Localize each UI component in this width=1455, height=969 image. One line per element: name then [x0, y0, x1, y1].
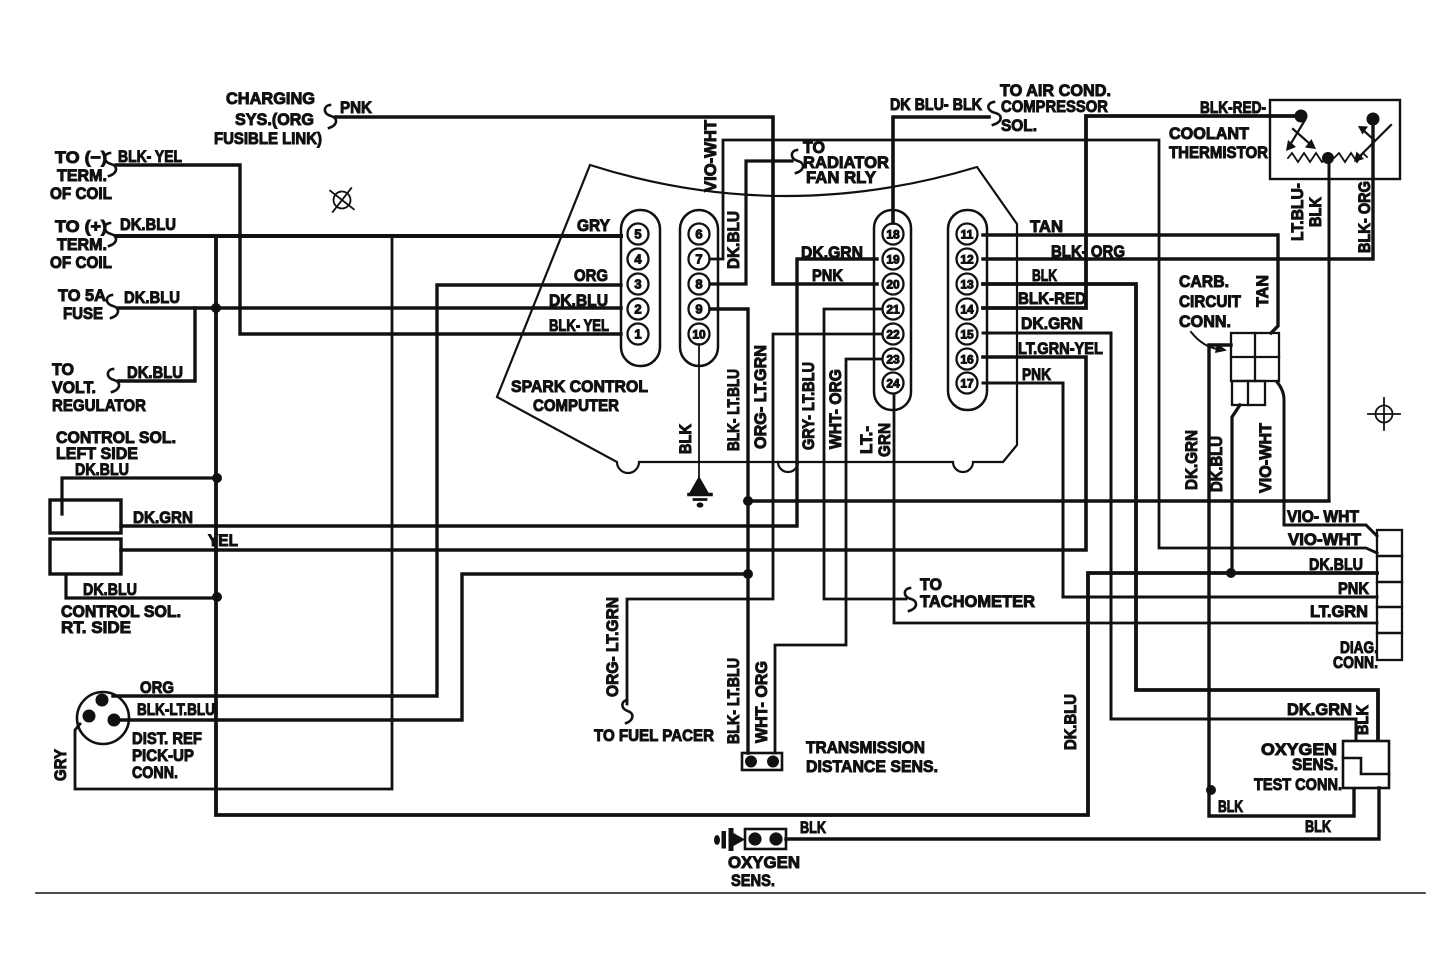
svg-text:GRY: GRY: [51, 748, 70, 781]
svg-text:VIO-WHT: VIO-WHT: [701, 119, 720, 192]
wire: DK.BLU carb conn down to diag DK.BLU wire: [1232, 405, 1240, 571]
svg-text:TERM.: TERM.: [57, 166, 107, 185]
junction: fuse/coil+ DK.BLU vertical tap: [211, 303, 221, 313]
pin 13: [957, 274, 978, 295]
junction: control sol right DK.BLU tap: [212, 592, 222, 602]
pin 21: [883, 299, 904, 320]
svg-text:CONN.: CONN.: [1333, 653, 1378, 672]
svg-text:CONN.: CONN.: [1179, 312, 1231, 331]
pin 12: [957, 249, 978, 270]
wire: BLK oxygen sensor to test conn: [786, 788, 1379, 839]
svg-text:LT.-: LT.-: [857, 426, 876, 454]
component: diagnostic connector cavities: [1377, 530, 1402, 556]
svg-text:21: 21: [886, 303, 900, 317]
svg-text:LT.GRN-YEL: LT.GRN-YEL: [1018, 339, 1103, 358]
svg-text:THERMISTOR: THERMISTOR: [1169, 143, 1268, 162]
wire: BLK-RED pin 14 to coolant thermistor: [983, 116, 1301, 308]
svg-text:DK.BLU: DK.BLU: [83, 580, 137, 599]
node: distributor reference pickup connector: [77, 692, 129, 744]
svg-text:ORG: ORG: [140, 678, 174, 697]
wire: GRY pickup to pin 5: [75, 236, 392, 789]
svg-text:23: 23: [886, 353, 900, 367]
connector shroud pins 11-17: [948, 210, 987, 410]
wire: DK.GRN pin 15 to oxygen sens test conn: [983, 333, 1356, 740]
svg-text:OF COIL: OF COIL: [50, 253, 112, 272]
svg-text:FAN RLY: FAN RLY: [806, 168, 877, 187]
svg-text:PNK: PNK: [340, 98, 373, 117]
wire: YEL control sol to pin 16 LT.GRN-YEL: [121, 357, 1086, 550]
pin 7: [689, 249, 710, 270]
svg-text:12: 12: [960, 253, 974, 267]
svg-text:BLK- ORG: BLK- ORG: [1355, 181, 1374, 253]
svg-text:18: 18: [886, 228, 900, 242]
svg-text:OF COIL: OF COIL: [50, 184, 112, 203]
svg-text:BLK- LT.BLU: BLK- LT.BLU: [724, 658, 743, 744]
wire: LT.GRN pin 24 to diag conn: [894, 394, 1377, 623]
svg-text:10: 10: [692, 328, 706, 342]
wire: VIO-WHT pin 7 to diag conn: [710, 140, 1377, 553]
control solenoid right box: [50, 539, 121, 574]
svg-text:BLK- YEL: BLK- YEL: [118, 147, 182, 166]
connector squiggle: radiator fan relay: [792, 150, 803, 173]
junction: control sol left DK.BLU tap: [212, 473, 222, 483]
pin 1: [628, 324, 649, 345]
svg-text:FUSIBLE LINK): FUSIBLE LINK): [214, 129, 322, 148]
svg-text:TAN: TAN: [1030, 217, 1063, 236]
wire: BLK-ORG pin 12 to coolant thermistor: [983, 122, 1373, 259]
svg-text:CIRCUIT: CIRCUIT: [1179, 292, 1242, 311]
svg-text:3: 3: [634, 277, 641, 292]
registration mark left: [321, 179, 363, 221]
svg-text:TAN: TAN: [1253, 275, 1272, 307]
svg-text:DK.BLU: DK.BLU: [1207, 436, 1226, 492]
wire: DK.BLU pin 8 to radiator fan relay: [710, 161, 792, 284]
svg-text:GRY: GRY: [577, 216, 611, 235]
connector shroud pins 5-1: [621, 210, 660, 366]
svg-text:BLK: BLK: [1218, 797, 1244, 816]
svg-text:BLK- LT.BLU: BLK- LT.BLU: [724, 369, 743, 451]
pin 9: [689, 299, 710, 320]
svg-text:TO: TO: [52, 360, 74, 379]
thermistor right arrow symbol: [1360, 125, 1391, 156]
component: transmission distance sensor connector: [742, 753, 782, 770]
thermistor resistive element zigzag: [1288, 153, 1367, 162]
wire: BLK pin 10 to ground: [698, 344, 700, 478]
svg-text:TO FUEL PACER: TO FUEL PACER: [594, 726, 714, 745]
wire: LT.BLU-BLK thermistor down to BLK-LT.BLU run: [1328, 162, 1331, 501]
svg-text:PNK: PNK: [812, 266, 844, 285]
wire: ORG pickup to pin 3: [113, 285, 621, 696]
svg-text:REGULATOR: REGULATOR: [52, 396, 146, 415]
svg-text:DK.BLU: DK.BLU: [124, 288, 180, 307]
svg-text:SYS.(ORG: SYS.(ORG: [235, 110, 314, 129]
pin 19: [883, 249, 904, 270]
pin 17: [957, 373, 978, 394]
svg-text:TACHOMETER: TACHOMETER: [920, 592, 1035, 611]
svg-text:2: 2: [634, 302, 641, 317]
connector squiggle: fuel pacer: [622, 700, 632, 723]
component: carb circuit connector grid: [1231, 333, 1279, 381]
wire: TAN pin 11 to carb circuit conn: [983, 235, 1278, 333]
svg-text:22: 22: [886, 328, 900, 342]
svg-text:CONN.: CONN.: [132, 763, 178, 782]
wire: BLK-LT.BLU branch to coolant thermistor: [748, 499, 1329, 502]
svg-text:GRY- LT.BLU: GRY- LT.BLU: [799, 362, 818, 450]
wire: DK.BLU coil(+) / GRY run to pin 5: [116, 234, 621, 238]
svg-text:COOLANT: COOLANT: [1169, 124, 1250, 143]
svg-text:BLK-LT.BLU: BLK-LT.BLU: [137, 700, 215, 719]
wire: DK.BLU volt regulator tap: [119, 308, 195, 381]
pin 2: [628, 299, 649, 320]
svg-text:13: 13: [960, 278, 974, 292]
svg-text:SOL.: SOL.: [1001, 116, 1037, 135]
connector squiggle: voltage regulator: [108, 369, 119, 392]
svg-text:DK.GRN: DK.GRN: [1021, 314, 1083, 333]
connector squiggle: charging sys feed: [325, 105, 336, 128]
svg-text:TEST CONN.: TEST CONN.: [1254, 775, 1342, 794]
svg-text:8: 8: [695, 277, 702, 292]
svg-text:5: 5: [634, 227, 641, 242]
svg-text:BLK: BLK: [676, 423, 695, 454]
pin 18: [883, 224, 904, 245]
svg-text:ORG- LT.GRN: ORG- LT.GRN: [603, 597, 622, 697]
wire: DK BLU-BLK pin 18 to air cond compressor: [893, 117, 989, 223]
page fold line: [36, 892, 1425, 894]
svg-text:SPARK CONTROL: SPARK CONTROL: [511, 377, 648, 396]
connector shroud pins 18-24: [874, 210, 911, 410]
svg-text:COMPRESSOR: COMPRESSOR: [1001, 97, 1108, 116]
svg-text:BLK-RED: BLK-RED: [1018, 289, 1086, 308]
connector squiggle: air cond compressor sol: [988, 102, 1000, 125]
svg-text:FUSE: FUSE: [63, 304, 103, 323]
ground symbol: [691, 478, 707, 492]
wire: PNK pin 17 to diag conn: [983, 383, 1377, 597]
svg-text:1: 1: [634, 327, 641, 342]
svg-text:20: 20: [886, 278, 900, 292]
svg-text:RT. SIDE: RT. SIDE: [61, 618, 131, 637]
registration mark right: [1368, 398, 1400, 430]
svg-text:GRN: GRN: [875, 423, 894, 457]
svg-text:ORG: ORG: [574, 266, 608, 285]
wire: PNK charging sys to pin 20: [336, 117, 877, 284]
svg-text:DK.BLU: DK.BLU: [127, 363, 183, 382]
svg-text:DK BLU- BLK: DK BLU- BLK: [890, 95, 983, 114]
pin 8: [689, 274, 710, 295]
svg-text:DK.BLU: DK.BLU: [1061, 694, 1080, 750]
component: oxygen sensor test connector: [1343, 741, 1389, 788]
svg-text:DK.GRN: DK.GRN: [1182, 430, 1201, 490]
svg-text:ORG- LT.GRN: ORG- LT.GRN: [751, 345, 770, 449]
wire: DK.BLU control sol right side: [66, 575, 216, 598]
connector squiggle: tachometer: [905, 588, 916, 611]
svg-text:DK.GRN: DK.GRN: [133, 508, 193, 527]
svg-text:19: 19: [886, 253, 900, 267]
svg-text:PNK: PNK: [1022, 365, 1052, 384]
pin 15: [957, 324, 978, 345]
pin 14: [957, 299, 978, 320]
svg-text:DK.BLU: DK.BLU: [1309, 555, 1363, 574]
spark control computer outline: [497, 165, 1017, 473]
wire: BLK-LT.BLU pin 9 down to transmission sensor: [710, 309, 748, 753]
svg-text:14: 14: [960, 303, 974, 317]
junction: carb conn DK.BLU joins diag DK.BLU wire: [1226, 568, 1236, 578]
svg-text:15: 15: [960, 328, 974, 342]
svg-text:PNK: PNK: [1338, 579, 1370, 598]
svg-text:TERM.: TERM.: [57, 235, 107, 254]
component: coolant thermistor box: [1270, 100, 1400, 179]
connector squiggle: coil positive: [105, 223, 116, 246]
svg-text:BLK-RED-: BLK-RED-: [1200, 98, 1266, 117]
thermistor left terminal dot: [1295, 110, 1308, 123]
wire: BLK pin 13 to oxygen sens test conn: [983, 284, 1378, 740]
wire: WHT-ORG pin 23 to transmission sensor: [775, 359, 882, 753]
pin 24: [883, 373, 904, 394]
connector shroud pins 6-10: [680, 210, 718, 366]
junction: pickup branch on BLK-LT.BLU: [743, 569, 753, 579]
svg-text:WHT- ORG: WHT- ORG: [826, 369, 845, 449]
svg-text:BLK: BLK: [1306, 196, 1325, 227]
svg-text:CARB.: CARB.: [1179, 272, 1229, 291]
svg-text:DK.BLU: DK.BLU: [549, 291, 608, 310]
svg-text:7: 7: [695, 252, 702, 267]
svg-text:VIO-WHT: VIO-WHT: [1256, 422, 1275, 493]
svg-text:YEL: YEL: [208, 531, 238, 550]
junction: dot on carb DK.GRN vertical: [1206, 785, 1216, 795]
svg-text:DK.GRN: DK.GRN: [1287, 700, 1352, 719]
svg-text:24: 24: [886, 377, 900, 391]
thermistor left arrow symbol: [1290, 120, 1305, 145]
svg-text:DK.BLU: DK.BLU: [724, 211, 743, 269]
svg-text:SENS.: SENS.: [731, 871, 775, 890]
svg-text:OXYGEN: OXYGEN: [728, 853, 800, 872]
control solenoid left box: [50, 500, 121, 533]
pin 5: [628, 224, 649, 245]
wire: BLK-YEL coil(-) to pin 1: [116, 165, 621, 334]
pin 6: [689, 224, 710, 245]
svg-text:VIO-WHT: VIO-WHT: [1288, 530, 1362, 549]
svg-text:6: 6: [695, 227, 702, 242]
pin 11: [957, 224, 978, 245]
pin 10: [689, 324, 710, 345]
svg-text:16: 16: [960, 353, 974, 367]
svg-text:BLK: BLK: [1305, 817, 1332, 836]
svg-text:BLK: BLK: [1353, 704, 1372, 735]
svg-text:BLK: BLK: [800, 818, 827, 837]
wire: VIO-WHT carb conn to diag conn: [1277, 382, 1377, 536]
svg-text:11: 11: [961, 228, 974, 242]
junction: thermistor branch on BLK-LT.BLU: [743, 496, 753, 506]
svg-text:DK.BLU: DK.BLU: [120, 215, 176, 234]
wire: ORG-LT.GRN pin 22 to fuel pacer: [627, 334, 882, 704]
pin 3: [628, 274, 649, 295]
svg-text:VIO- WHT: VIO- WHT: [1287, 507, 1360, 526]
svg-text:DISTANCE SENS.: DISTANCE SENS.: [806, 757, 938, 776]
svg-text:TO (−): TO (−): [55, 148, 107, 167]
pin 16: [957, 349, 978, 370]
carb conn pointer arrow: [1191, 332, 1218, 349]
svg-text:TO (+): TO (+): [55, 217, 107, 236]
thermistor right terminal dot: [1367, 113, 1380, 126]
wire: DK.GRN carb conn to oxygen sens test conn BLK run: [1209, 345, 1354, 816]
svg-text:TRANSMISSION: TRANSMISSION: [806, 738, 925, 757]
computer bottom scallop: [778, 462, 798, 472]
svg-text:CHARGING: CHARGING: [226, 89, 315, 108]
component: oxygen sensor: [714, 835, 720, 845]
svg-text:WHT- ORG: WHT- ORG: [752, 661, 771, 743]
wire: DK.GRN control sol to pin 19: [121, 259, 877, 526]
connector squiggle: 5A fuse: [107, 295, 118, 318]
svg-text:LT.BLU-: LT.BLU-: [1288, 183, 1307, 241]
pin 22: [883, 324, 904, 345]
svg-text:TO 5A: TO 5A: [58, 286, 106, 305]
svg-text:LT.GRN: LT.GRN: [1310, 602, 1368, 621]
svg-text:17: 17: [960, 377, 974, 391]
pin 20: [883, 274, 904, 295]
thermistor center junction dot: [1322, 152, 1334, 164]
svg-text:4: 4: [634, 252, 642, 267]
wire: GRY-LT.BLU pin 21 to tachometer run: [824, 309, 906, 599]
wire: DK.BLU 5A fuse run to pin 2: [118, 306, 621, 310]
pin 23: [883, 349, 904, 370]
svg-text:DK.GRN: DK.GRN: [801, 243, 863, 262]
connector squiggle: coil negative: [105, 153, 116, 176]
wire: DK.BLU main left vertical bus to diag conn: [216, 236, 1377, 815]
pin 4: [628, 249, 649, 270]
svg-text:VOLT.: VOLT.: [52, 378, 96, 397]
svg-text:DK.BLU: DK.BLU: [75, 460, 129, 479]
svg-text:BLK- YEL: BLK- YEL: [549, 316, 609, 335]
wire: BLK-LT.BLU pickup to junction: [120, 574, 748, 720]
svg-text:SENS.: SENS.: [1292, 755, 1338, 774]
svg-text:COMPUTER: COMPUTER: [533, 396, 619, 415]
wire: DK.BLU control sol left side: [62, 478, 216, 514]
svg-text:9: 9: [695, 302, 702, 317]
